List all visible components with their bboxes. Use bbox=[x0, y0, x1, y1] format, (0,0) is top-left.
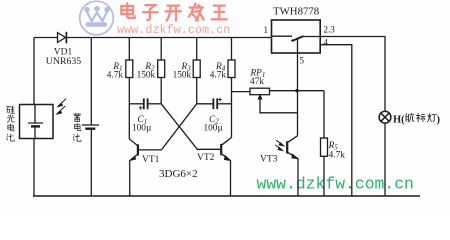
resistor R1 bbox=[126, 38, 133, 140]
transistor VT1 bbox=[129, 139, 138, 196]
svg-text:UNR635: UNR635 bbox=[46, 56, 81, 67]
svg-text:4.7k: 4.7k bbox=[210, 71, 227, 81]
diode VD1 bbox=[58, 32, 67, 43]
watermark title 电子开发王 bbox=[121, 3, 226, 20]
switch inside TWH8778 bbox=[272, 36, 321, 42]
svg-text:4: 4 bbox=[324, 38, 329, 48]
wire cross coupling C2 to VT1 base bbox=[139, 104, 197, 150]
svg-text:150k: 150k bbox=[137, 71, 156, 81]
potentiometer RP1 bbox=[232, 88, 325, 113]
wire photocell to ground rail bbox=[33, 139, 35, 197]
light arrows into photocell bbox=[56, 99, 66, 115]
resistor R2 bbox=[158, 38, 165, 104]
capacitor C2 bbox=[197, 98, 232, 110]
svg-text:3DG6×2: 3DG6×2 bbox=[159, 168, 198, 180]
svg-text:100µ: 100µ bbox=[204, 124, 224, 134]
watermark logo circle W bbox=[80, 1, 114, 35]
photocell internal battery bbox=[28, 105, 43, 139]
resistor R3 bbox=[193, 38, 200, 104]
lamp H bbox=[379, 111, 391, 196]
label 蓄电池 bbox=[73, 113, 81, 141]
silicon photocell box bbox=[20, 105, 54, 139]
svg-text:150k: 150k bbox=[173, 71, 192, 81]
svg-text:4.7k: 4.7k bbox=[107, 71, 124, 81]
ground rail bottom bbox=[33, 195, 420, 197]
wire pin 4 to ground bbox=[320, 45, 352, 196]
wire top rail bbox=[34, 37, 272, 39]
svg-text:1: 1 bbox=[264, 25, 269, 35]
label 硅光电池 bbox=[6, 106, 14, 141]
svg-text:5: 5 bbox=[300, 56, 305, 66]
svg-text:VT3: VT3 bbox=[260, 155, 278, 165]
wire pin5 vertical bbox=[297, 38, 299, 136]
IC TWH8778 box bbox=[272, 20, 321, 53]
capacitor C1 bbox=[129, 98, 161, 109]
resistor R5 bbox=[321, 91, 328, 196]
svg-text:47k: 47k bbox=[250, 77, 264, 87]
svg-text:): ) bbox=[437, 114, 441, 125]
svg-text:100µ: 100µ bbox=[132, 124, 152, 134]
wire cross coupling C1 to VT2 base bbox=[161, 104, 220, 150]
transistor VT3 bbox=[287, 136, 298, 196]
svg-text:www.dzkfw.com.cn: www.dzkfw.com.cn bbox=[257, 175, 414, 194]
svg-text:VT2: VT2 bbox=[197, 153, 215, 163]
junction node pin5 bbox=[295, 89, 298, 92]
svg-text:2.3: 2.3 bbox=[324, 24, 336, 34]
svg-text:TWH8778: TWH8778 bbox=[273, 6, 319, 18]
label H lamp bbox=[393, 113, 441, 125]
svg-text:www.dzkfw.com.cn: www.dzkfw.com.cn bbox=[117, 23, 230, 37]
light arrows into VT3 bbox=[275, 140, 284, 151]
svg-text:4.7k: 4.7k bbox=[329, 151, 346, 161]
svg-text:H(: H( bbox=[393, 114, 405, 125]
transistor VT2 bbox=[221, 138, 231, 197]
svg-text:VT1: VT1 bbox=[142, 155, 160, 165]
storage battery bbox=[82, 125, 99, 196]
wire pin 2.3 to lamp bbox=[320, 37, 385, 112]
wire left vertical to photocell bbox=[33, 38, 35, 105]
resistor R4 bbox=[228, 38, 235, 138]
wire battery column bbox=[90, 38, 92, 125]
